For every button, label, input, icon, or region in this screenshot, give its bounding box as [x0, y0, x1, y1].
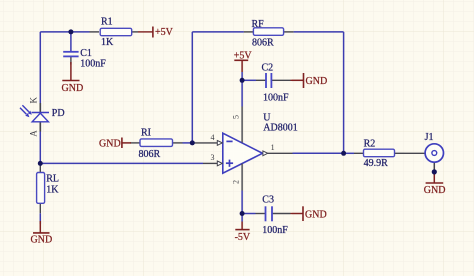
- svg-text:RF: RF: [252, 19, 265, 30]
- svg-text:C2: C2: [262, 62, 274, 73]
- wire left vertical (top wire down to photodiode cathode): [39, 32, 41, 113]
- wire C3 right plate to GND: [272, 213, 291, 215]
- wire node C to op-amp pin 4: [192, 142, 218, 144]
- wire feedback vertical (node C up to RF): [191, 32, 193, 143]
- wire +5V node to C2 left plate: [242, 79, 256, 81]
- svg-text:100nF: 100nF: [262, 225, 288, 236]
- svg-text:2: 2: [231, 180, 240, 184]
- capacitor C3: [262, 194, 288, 235]
- wire feedback top to RF left: [192, 31, 244, 33]
- junction node C: [190, 140, 195, 145]
- wire op-amp output pin 1: [263, 152, 293, 154]
- wire C1 bottom pin: [70, 57, 72, 65]
- svg-text:A: A: [29, 130, 39, 137]
- svg-text:100nF: 100nF: [263, 93, 289, 104]
- svg-text:GND: GND: [31, 234, 53, 245]
- wire RF right pin: [284, 31, 294, 33]
- wire photodiode anode pin: [39, 122, 41, 132]
- svg-text:GND: GND: [306, 76, 328, 87]
- wire R2 left pin: [354, 152, 364, 154]
- svg-text:RL: RL: [46, 174, 59, 185]
- ground right of C2: [292, 73, 327, 88]
- ground below J1: [424, 172, 446, 196]
- junction +5V node at pin 5: [240, 78, 245, 83]
- svg-text:1K: 1K: [46, 185, 59, 196]
- wire C1 top (node A down to C1): [70, 32, 72, 51]
- svg-text:C3: C3: [262, 194, 274, 205]
- junction node B: [38, 161, 43, 166]
- wire feedback right vertical down to output node: [343, 32, 345, 153]
- junction node D (output): [341, 151, 346, 156]
- power +5V above op-amp pin 5: [234, 51, 253, 81]
- wire op-amp pin 3 stub: [203, 162, 218, 164]
- svg-text:1K: 1K: [101, 37, 114, 48]
- power -5V below op-amp pin 2: [235, 214, 251, 243]
- svg-text:3: 3: [211, 153, 215, 162]
- resistor RF: [252, 19, 284, 49]
- photodiode PD: [20, 97, 65, 137]
- wire J1 shield pin down: [433, 162, 435, 172]
- wire R1 right pin: [132, 31, 139, 33]
- svg-text:GND: GND: [305, 209, 327, 220]
- svg-text:5: 5: [232, 115, 241, 119]
- wire node D to R2: [344, 152, 354, 154]
- svg-text:806R: 806R: [252, 37, 274, 48]
- wire -5V node to C3 left plate: [242, 213, 255, 215]
- wire R1 to +5V stem: [138, 31, 153, 33]
- op-amp U AD8001: [211, 80, 298, 213]
- svg-text:+5V: +5V: [155, 27, 174, 38]
- resistor R2: [364, 139, 395, 170]
- svg-text:R2: R2: [364, 139, 376, 150]
- capacitor C2: [262, 62, 290, 103]
- svg-text:806R: 806R: [139, 149, 161, 160]
- ground left of RI: [99, 138, 131, 150]
- resistor R1: [100, 17, 132, 49]
- svg-text:-5V: -5V: [235, 232, 251, 243]
- svg-text:4: 4: [211, 133, 215, 142]
- wire C2 right plate to GND: [271, 79, 290, 81]
- capacitor C1: [63, 48, 106, 69]
- wire RI right pin to node C: [173, 142, 183, 144]
- wire R1 left pin: [90, 31, 100, 33]
- junction J1 shield to ground: [432, 169, 437, 174]
- wire R2 right pin: [395, 152, 405, 154]
- wire GND stub left of RI: [130, 142, 140, 144]
- ground below C1: [62, 62, 84, 94]
- junction -5V node at pin 2: [240, 211, 245, 216]
- wire photodiode anode to node B: [39, 122, 41, 164]
- svg-text:AD8001: AD8001: [263, 122, 297, 133]
- svg-text:100nF: 100nF: [80, 58, 106, 69]
- wire RF left pin: [244, 31, 254, 33]
- svg-text:PD: PD: [52, 108, 65, 119]
- connector J1: [425, 132, 444, 162]
- svg-text:1: 1: [271, 143, 275, 152]
- wire top-left horizontal (node A to R1): [40, 31, 89, 33]
- wire photodiode cathode pin: [39, 103, 41, 113]
- wire op-amp output to node D: [293, 152, 344, 154]
- resistor RL: [37, 173, 60, 204]
- junction node A: [68, 29, 73, 34]
- svg-text:GND: GND: [424, 185, 446, 196]
- svg-text:RI: RI: [141, 128, 151, 139]
- svg-text:49.9R: 49.9R: [364, 158, 389, 169]
- wire node B down to RL: [39, 163, 41, 172]
- wire R2 to J1: [405, 152, 426, 154]
- wire node B to op-amp pin 3: [40, 162, 203, 164]
- wire RF right going right: [294, 31, 344, 33]
- svg-text:K: K: [29, 97, 39, 104]
- svg-text:GND: GND: [99, 138, 121, 149]
- power +5V at R1: [153, 27, 174, 38]
- ground below RL: [31, 221, 53, 245]
- ground right of C3: [292, 206, 327, 221]
- resistor RI: [139, 128, 173, 161]
- svg-text:R1: R1: [101, 17, 113, 28]
- svg-text:GND: GND: [62, 83, 84, 94]
- svg-text:J1: J1: [425, 132, 434, 143]
- svg-text:+5V: +5V: [234, 51, 253, 62]
- wire RL bottom pin: [39, 203, 41, 213]
